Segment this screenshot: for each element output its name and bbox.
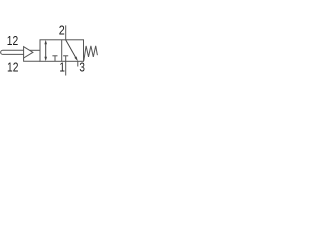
port 1 line <box>65 61 67 75</box>
wire pilot exhaust L-line <box>24 58 40 61</box>
port 3 line <box>77 61 79 66</box>
blocked port T (left square) <box>52 56 57 62</box>
svg-text:2: 2 <box>59 23 65 37</box>
return spring <box>84 46 98 61</box>
flow arrow (left square, double-headed) <box>44 40 47 61</box>
valve body <box>40 40 84 62</box>
svg-text:12: 12 <box>7 34 18 48</box>
pneumatic 3/2 valve schematic <box>0 0 100 100</box>
port 2 line <box>65 25 67 39</box>
svg-text:12: 12 <box>7 61 18 75</box>
pilot port capsule <box>1 50 24 54</box>
blocked port T (right square) <box>63 56 68 62</box>
pilot triangle <box>24 47 33 58</box>
svg-text:3: 3 <box>79 61 85 75</box>
flow diagonal 2->3 (right square) <box>66 40 78 61</box>
valve body divider <box>61 40 63 62</box>
svg-text:1: 1 <box>59 61 65 75</box>
wire pilot to body <box>30 49 41 51</box>
